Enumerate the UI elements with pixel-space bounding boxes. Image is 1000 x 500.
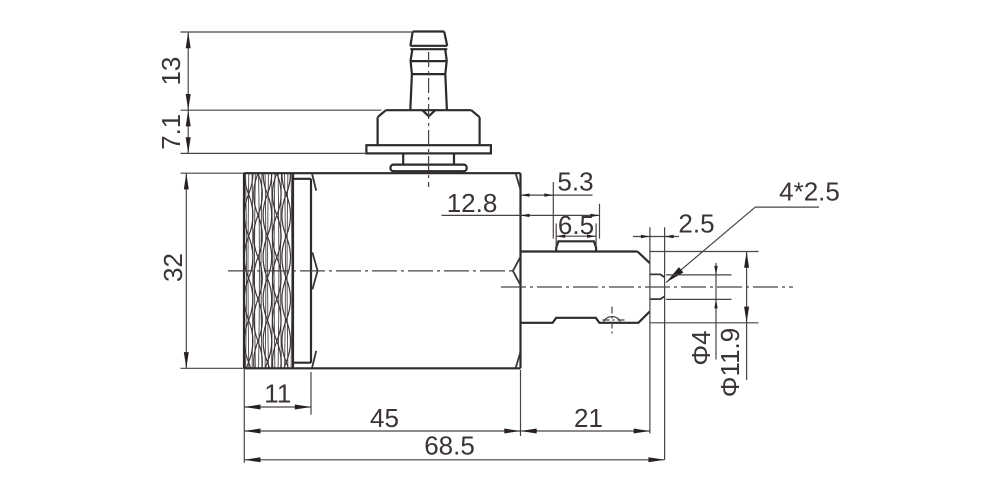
centerline shaft axis	[501, 286, 793, 288]
right stepped shaft	[521, 241, 650, 322]
end face line	[664, 227, 666, 459]
svg-text:4*2.5: 4*2.5	[779, 176, 840, 206]
leader 4*2.5	[666, 207, 819, 282]
dim 45 line	[244, 430, 520, 432]
knurled thread section texture	[244, 110, 292, 404]
dim 21 line	[521, 430, 650, 432]
svg-text:Φ4: Φ4	[686, 330, 716, 365]
svg-text:45: 45	[370, 403, 399, 433]
bottom extension lines	[244, 368, 520, 463]
svg-text:13: 13	[156, 57, 186, 86]
base collar	[391, 165, 467, 172]
dim phi11.9	[650, 252, 759, 381]
svg-text:7.1: 7.1	[156, 114, 186, 150]
dim phi4	[666, 263, 732, 360]
svg-text:6.5: 6.5	[558, 210, 594, 240]
hidden cross hole dome	[604, 317, 620, 323]
center hole edges	[650, 274, 665, 299]
svg-text:2.5: 2.5	[678, 208, 714, 238]
hex nut	[378, 110, 480, 145]
second barb lower	[411, 61, 447, 74]
second barb upper	[411, 49, 447, 61]
dim 5.3	[521, 182, 593, 239]
dim 13/7.1 dimension line	[187, 32, 189, 153]
svg-text:32: 32	[158, 253, 188, 282]
shaft bottom with groove and end chamfer	[521, 311, 650, 322]
nut v-notch	[422, 110, 435, 116]
dim 13 and 7.1 extension lines	[181, 32, 413, 153]
dim 12.8	[442, 204, 600, 239]
hex chamfer marks right	[516, 173, 521, 368]
barb collar band	[410, 48, 447, 50]
barb fitting on top	[366, 32, 491, 172]
raised ring	[556, 241, 596, 251]
centerline barb	[428, 52, 430, 187]
dim 6.5	[556, 223, 596, 247]
left hex chevron	[312, 252, 317, 289]
centerline body axis	[228, 270, 512, 272]
stem tube	[410, 74, 447, 110]
shaft top surface	[521, 250, 638, 252]
washer flange	[366, 145, 491, 153]
main body outline	[244, 173, 521, 368]
dim 13 arrows	[186, 32, 191, 153]
svg-text:21: 21	[574, 403, 603, 433]
svg-text:Φ11.9: Φ11.9	[715, 328, 745, 397]
svg-text:12.8: 12.8	[447, 188, 498, 218]
svg-text:11: 11	[264, 379, 291, 409]
lower neck	[403, 153, 454, 164]
dim 2.5	[633, 236, 679, 238]
dim 11 line	[244, 406, 311, 408]
cross hole centerlines	[603, 307, 626, 334]
hex chamfer marks left	[312, 173, 316, 368]
svg-text:5.3: 5.3	[557, 166, 593, 196]
svg-text:68.5: 68.5	[424, 431, 475, 461]
dim 68.5 line	[244, 459, 664, 461]
tip shoulder line	[649, 227, 651, 433]
dim 32 dimension line	[185, 173, 187, 368]
dim 32 extension lines	[181, 173, 245, 368]
right hex chevron	[513, 257, 520, 284]
end chamfer top	[638, 252, 650, 264]
top barb cone	[410, 32, 447, 46]
